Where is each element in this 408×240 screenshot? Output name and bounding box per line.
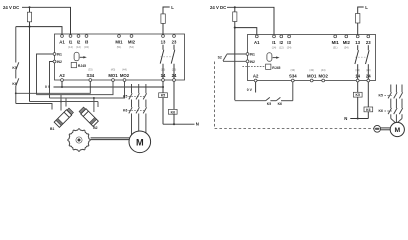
svg-text:IN1: IN1 xyxy=(57,53,62,57)
svg-text:0 V: 0 V xyxy=(247,88,253,92)
terminal IN2 xyxy=(53,60,56,63)
svg-text:N: N xyxy=(344,116,347,121)
svg-text:(12): (12) xyxy=(279,45,284,49)
svg-text:(33): (33) xyxy=(88,67,93,71)
svg-text:(14): (14) xyxy=(272,45,277,49)
svg-text:RJ45: RJ45 xyxy=(78,64,86,68)
contact 23-24 xyxy=(173,45,175,50)
svg-text:24 V DC: 24 V DC xyxy=(210,5,226,10)
wire 24V drop to harness xyxy=(29,27,31,102)
terminal 14 xyxy=(162,79,165,82)
terminal A1 xyxy=(255,35,258,38)
three-phase line L1 with K5/K6 contacts xyxy=(388,85,396,123)
svg-text:MI2: MI2 xyxy=(343,40,351,45)
svg-text:IN2: IN2 xyxy=(57,60,62,64)
motor M2 xyxy=(390,122,404,136)
config key symbol xyxy=(267,53,272,62)
feedback loop: contact K6 xyxy=(270,100,276,102)
svg-text:(43): (43) xyxy=(309,68,314,72)
wire feedback drop xyxy=(234,28,236,101)
wire 14 to K5 coil xyxy=(357,82,359,92)
mechanical link contacts xyxy=(355,56,367,58)
terminal I2 xyxy=(77,35,80,38)
node sensor1 tap xyxy=(60,101,62,103)
relay coil K5 xyxy=(159,93,168,98)
svg-text:MI1: MI1 xyxy=(332,40,340,45)
RJ45 port xyxy=(266,64,271,69)
terminal 13 xyxy=(356,35,359,38)
fuse F4 xyxy=(356,14,360,24)
terminal I3 xyxy=(85,35,88,38)
terminal 14 xyxy=(356,79,359,82)
terminal I1 xyxy=(273,35,276,38)
svg-text:23: 23 xyxy=(172,39,177,44)
node A2/0V xyxy=(61,86,63,88)
wire feedback column xyxy=(15,27,17,63)
label L xyxy=(358,7,364,14)
svg-text:(54): (54) xyxy=(129,45,134,49)
wire sensor1 lower loop xyxy=(16,104,52,110)
contact K5 (feedback loop) xyxy=(16,62,19,70)
wire 24 to K6 coil xyxy=(173,82,175,110)
switch S2 xyxy=(227,53,246,55)
svg-text:K5: K5 xyxy=(123,94,127,98)
svg-text:K5: K5 xyxy=(12,66,16,70)
svg-text:K5: K5 xyxy=(161,94,165,98)
RJ45 port xyxy=(71,62,76,67)
relay coil K6 xyxy=(364,107,373,112)
fuse F3 xyxy=(234,7,236,12)
three-phase line L2 xyxy=(394,85,397,123)
terminal MO2 xyxy=(322,79,325,82)
terminal IN1 xyxy=(246,53,249,56)
svg-text:(34): (34) xyxy=(287,45,292,49)
svg-text:(34): (34) xyxy=(84,45,89,49)
svg-text:(43): (43) xyxy=(111,67,116,71)
wire A2 drop xyxy=(61,82,63,88)
svg-text:(33): (33) xyxy=(290,68,295,72)
svg-text:K6: K6 xyxy=(123,108,127,112)
fuse F2 xyxy=(161,14,165,24)
wire 24V rail xyxy=(227,7,274,35)
three-phase line L2 xyxy=(136,84,139,132)
svg-text:(14): (14) xyxy=(68,45,73,49)
terminal I2 xyxy=(280,35,283,38)
node fuse/A1 xyxy=(234,27,236,29)
svg-text:(44): (44) xyxy=(122,67,127,71)
svg-text:MI1: MI1 xyxy=(115,39,123,44)
svg-text:(51): (51) xyxy=(333,45,338,49)
svg-text:B1: B1 xyxy=(50,127,54,131)
terminal I3 xyxy=(288,35,291,38)
svg-text:L: L xyxy=(171,5,174,10)
mechanical link contacts xyxy=(161,56,174,58)
wire A1 feed xyxy=(16,27,62,35)
svg-text:IN1: IN1 xyxy=(250,53,255,57)
svg-text:I3: I3 xyxy=(287,40,291,45)
terminal IN1 xyxy=(53,53,56,56)
feedback loop: contact K5 xyxy=(235,100,266,102)
terminal MO2 xyxy=(123,79,126,82)
terminal 13 xyxy=(162,35,165,38)
wire IN2 feed xyxy=(50,62,54,99)
svg-text:K6: K6 xyxy=(278,102,282,106)
dashed actuator line xyxy=(215,62,374,129)
wire feedback to S34 xyxy=(16,82,91,94)
svg-text:(51): (51) xyxy=(117,45,122,49)
contact 13-14 xyxy=(162,45,164,50)
svg-text:A2: A2 xyxy=(253,73,259,78)
three-phase line L3 xyxy=(143,84,146,133)
svg-text:0 V: 0 V xyxy=(45,85,51,89)
config key symbol xyxy=(74,52,79,61)
contact K6 (feedback loop) xyxy=(16,78,19,86)
svg-text:S34: S34 xyxy=(289,73,297,78)
node 0V/K5coil xyxy=(162,86,164,88)
svg-text:I1: I1 xyxy=(272,40,276,45)
node coil junction xyxy=(357,117,359,119)
svg-text:RJ45: RJ45 xyxy=(272,66,280,70)
svg-text:L: L xyxy=(365,5,368,10)
terminal I1 xyxy=(69,35,72,38)
shaft to motor xyxy=(91,137,131,139)
wire IN1 feed xyxy=(37,54,54,95)
terminal MO1 xyxy=(310,79,313,82)
wire sensor2 cable xyxy=(93,98,95,112)
terminal A2 xyxy=(254,79,257,82)
node rail/fuse xyxy=(234,6,236,8)
label L xyxy=(163,7,170,14)
svg-text:S2: S2 xyxy=(218,56,222,60)
svg-text:K6: K6 xyxy=(379,109,383,113)
node rail/fuse junction xyxy=(28,6,30,8)
wire sensor1 aux drop xyxy=(65,98,67,107)
svg-text:N: N xyxy=(196,122,199,127)
wire N return xyxy=(350,118,368,120)
terminal S34 xyxy=(89,79,92,82)
wire MO1 drop xyxy=(37,82,114,95)
dashed RJ45 config line xyxy=(242,66,265,68)
node feedback branch xyxy=(15,92,17,94)
terminal MI2 xyxy=(345,35,348,38)
gear shaft center xyxy=(78,139,81,142)
svg-text:K6: K6 xyxy=(366,108,370,112)
terminal MI2 xyxy=(130,35,133,38)
wire 24V rail xyxy=(22,7,71,34)
encoder on motor shaft xyxy=(374,125,381,132)
gear wheel xyxy=(68,129,91,152)
svg-text:24 V DC: 24 V DC xyxy=(3,5,19,10)
three-phase line L3 xyxy=(397,85,403,123)
svg-text:K5: K5 xyxy=(356,93,360,97)
svg-text:S34: S34 xyxy=(86,73,94,78)
terminal MI1 xyxy=(334,35,337,38)
contact 13-14 xyxy=(357,45,359,50)
node K6/N xyxy=(173,123,175,125)
terminal 23 xyxy=(173,35,176,38)
svg-text:(12): (12) xyxy=(76,45,81,49)
wire A2 to 0V xyxy=(255,82,257,93)
fuse F1 xyxy=(29,7,31,12)
svg-text:A2: A2 xyxy=(59,73,65,78)
terminal 24 xyxy=(367,79,370,82)
contact 23-24 xyxy=(367,45,369,50)
svg-text:I1: I1 xyxy=(69,39,73,44)
svg-text:M: M xyxy=(394,127,400,134)
three-phase line L1 with contacts K5/K6 xyxy=(129,84,132,137)
terminal IN2 xyxy=(246,60,249,63)
terminal 23 xyxy=(367,35,370,38)
svg-text:K6: K6 xyxy=(171,110,175,114)
svg-text:(44): (44) xyxy=(321,68,326,72)
terminal A2 xyxy=(61,79,64,82)
relay coil K5 xyxy=(353,92,362,97)
svg-text:MO1: MO1 xyxy=(307,73,317,78)
proximity sensor B1 xyxy=(54,108,74,128)
wire MO2 drop xyxy=(50,82,125,99)
terminal MO1 xyxy=(112,79,115,82)
device U1 safety relay box xyxy=(55,34,185,80)
shaft coupling xyxy=(381,127,391,129)
svg-text:MO1: MO1 xyxy=(108,73,118,78)
svg-text:M: M xyxy=(136,137,144,147)
wire sensor supply harness xyxy=(30,101,99,103)
wire S34 drop xyxy=(292,82,294,101)
svg-text:B2: B2 xyxy=(93,126,97,130)
svg-text:A1: A1 xyxy=(254,40,260,45)
wire N return xyxy=(163,123,195,125)
wire sensor2 supply xyxy=(97,102,99,108)
svg-text:K5: K5 xyxy=(267,102,271,106)
svg-text:13: 13 xyxy=(161,39,166,44)
wire sensor1 cable xyxy=(60,95,62,111)
wire 0V rail xyxy=(54,86,164,88)
wire 14 to K5 coil xyxy=(162,82,164,93)
svg-text:(54): (54) xyxy=(344,45,349,49)
wire A1 feed xyxy=(235,28,257,36)
svg-text:I2: I2 xyxy=(280,40,284,45)
proximity sensor B2 xyxy=(79,107,99,127)
svg-text:I3: I3 xyxy=(85,39,89,44)
terminal S34 xyxy=(291,79,294,82)
motor M1 xyxy=(129,131,151,153)
svg-text:MO2: MO2 xyxy=(319,73,329,78)
terminal 24 xyxy=(173,79,176,82)
svg-text:K6: K6 xyxy=(12,82,16,86)
device U2 safety relay box xyxy=(248,35,376,81)
terminal MI1 xyxy=(118,35,121,38)
wire 24 to K6 coil xyxy=(367,82,369,107)
relay coil K6 xyxy=(168,109,177,114)
node sensor2 tap xyxy=(93,97,95,99)
svg-text:IN2: IN2 xyxy=(250,60,255,64)
svg-text:MI2: MI2 xyxy=(128,39,136,44)
svg-text:A1: A1 xyxy=(59,39,65,44)
node fuse/A1 junction xyxy=(28,26,30,28)
svg-text:I2: I2 xyxy=(77,39,81,44)
terminal A1 xyxy=(61,35,64,38)
svg-text:23: 23 xyxy=(366,40,371,45)
svg-text:K5: K5 xyxy=(379,93,383,97)
svg-text:MO2: MO2 xyxy=(120,73,130,78)
svg-text:13: 13 xyxy=(355,40,360,45)
